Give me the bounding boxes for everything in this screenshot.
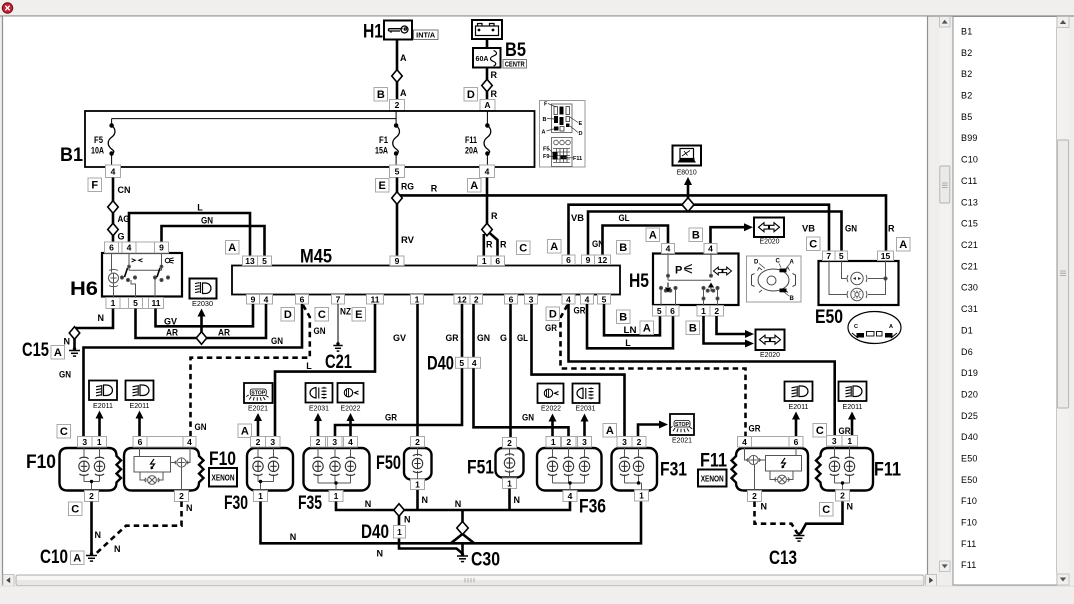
svg-text:D1: D1 bbox=[961, 325, 973, 335]
close button bbox=[2, 3, 12, 13]
wire N to C30 junction bbox=[461, 510, 464, 523]
status bar bbox=[0, 586, 1074, 604]
H6 beam icon park bbox=[165, 258, 174, 263]
turn signal E2020 top bbox=[754, 218, 784, 238]
svg-text:C: C bbox=[822, 504, 830, 516]
connector label A (M45 left) bbox=[226, 241, 240, 255]
pin 6 (F10 xenon) bbox=[133, 437, 147, 448]
svg-text:B: B bbox=[692, 230, 700, 242]
svg-text:4: 4 bbox=[187, 437, 192, 447]
pin 1 (M45 bottom) bbox=[411, 294, 424, 304]
connector label B (H5 bottom) bbox=[617, 310, 631, 324]
pin 9 (M45 top) bbox=[390, 256, 404, 266]
pin 2 (F11 xenon) bbox=[748, 491, 762, 502]
svg-text:5: 5 bbox=[133, 298, 138, 308]
svg-text:9: 9 bbox=[395, 256, 400, 266]
svg-text:9: 9 bbox=[159, 243, 164, 253]
svg-text:GL: GL bbox=[619, 213, 630, 223]
svg-text:D: D bbox=[467, 89, 475, 101]
arrow to E2011 from F10 xenon pin 6 bbox=[136, 411, 144, 437]
ground C30 bbox=[457, 556, 468, 562]
pin 15 (E50) bbox=[878, 251, 894, 261]
svg-text:GN: GN bbox=[59, 370, 71, 380]
connector label B (H5 pins 1-2) bbox=[686, 321, 700, 335]
svg-text:G: G bbox=[118, 232, 125, 242]
svg-text:B2: B2 bbox=[961, 91, 972, 101]
svg-text:3: 3 bbox=[582, 437, 587, 447]
wire N bus from F35 pin 1 to F36 pin 4 bbox=[336, 502, 570, 511]
junction C30 bbox=[457, 522, 469, 535]
pin 4 L (M45 bottom) bbox=[581, 294, 594, 304]
ignition switch H1 box bbox=[384, 21, 412, 40]
bulb 3 (F35) bbox=[345, 457, 355, 475]
pin 6 (M45 top right) bbox=[491, 256, 505, 266]
pin 13 (M45 top) bbox=[243, 256, 258, 266]
connector label C (F10) bbox=[57, 425, 71, 439]
F36 pin row bbox=[546, 437, 592, 448]
svg-text:1: 1 bbox=[258, 491, 263, 501]
pin 7 (M45 bottom) bbox=[332, 294, 345, 304]
pin 3 (F11) bbox=[827, 436, 843, 447]
svg-text:C15: C15 bbox=[22, 340, 49, 361]
svg-text:NZ: NZ bbox=[340, 307, 351, 317]
svg-text:D: D bbox=[754, 260, 759, 266]
svg-text:A: A bbox=[790, 260, 795, 266]
reverse lamp icon E2022 (left) bbox=[338, 383, 364, 403]
ground C10 bbox=[86, 556, 97, 562]
inline connector on wire N bbox=[69, 327, 80, 340]
svg-text:B2: B2 bbox=[961, 69, 972, 79]
svg-text:15: 15 bbox=[881, 251, 891, 261]
svg-text:6: 6 bbox=[670, 306, 675, 316]
pin 4 (H5 top right) bbox=[704, 244, 717, 254]
svg-text:F11: F11 bbox=[700, 451, 727, 472]
wire GN from D40 pin 4 to F36 pin 2 bbox=[474, 368, 569, 436]
svg-text:VB: VB bbox=[802, 224, 816, 234]
svg-text:6: 6 bbox=[509, 294, 514, 304]
wire R long to E50 pin 15 bbox=[397, 195, 886, 250]
arrow to E8010 bbox=[684, 177, 692, 205]
svg-text:4: 4 bbox=[566, 294, 571, 304]
svg-text:D40: D40 bbox=[427, 354, 454, 375]
wire GL from M45 pin 12 to H5 pin 4 bbox=[603, 226, 669, 255]
pin 4 (H6 top) bbox=[122, 242, 136, 253]
fog lamp unit F30 bbox=[247, 448, 293, 491]
svg-text:R: R bbox=[486, 240, 493, 250]
svg-text:E: E bbox=[579, 121, 583, 127]
wire AR from H6 pin 5 to M45 pin 4 bbox=[136, 304, 267, 338]
pin 2 (F31) bbox=[632, 437, 646, 448]
svg-text:D40: D40 bbox=[961, 432, 978, 442]
svg-text:P: P bbox=[675, 265, 682, 277]
fog lamp icon E2031 (right) bbox=[573, 384, 600, 404]
svg-text:C21: C21 bbox=[961, 261, 978, 271]
pin 6 (F11 xenon) bbox=[789, 437, 803, 448]
top bar border bbox=[0, 15, 1074, 17]
svg-text:6: 6 bbox=[109, 243, 114, 253]
svg-text:A: A bbox=[889, 324, 893, 330]
connector label A (H5 pin 4) bbox=[646, 228, 660, 242]
diagram right border bbox=[927, 17, 929, 575]
svg-text:4: 4 bbox=[585, 294, 590, 304]
wire R to M45 pin 6 bbox=[490, 233, 498, 255]
svg-text:4: 4 bbox=[708, 244, 713, 254]
pin 2 (F36) bbox=[562, 437, 577, 448]
connector label A (M45 pin6) bbox=[548, 240, 562, 254]
svg-text:7: 7 bbox=[336, 294, 341, 304]
arrow to E2030 bbox=[198, 309, 206, 333]
svg-text:1: 1 bbox=[111, 298, 116, 308]
svg-text:1: 1 bbox=[415, 294, 420, 304]
svg-text:N: N bbox=[186, 503, 193, 513]
svg-text:XENON: XENON bbox=[212, 474, 235, 483]
pin 11 (M45 bottom) bbox=[367, 294, 384, 304]
wire GN solid from M45 pin 6 to F10 pin 3 bbox=[84, 304, 303, 436]
connector label E (M45 pin7) bbox=[352, 308, 366, 322]
horizontal scrollbar bbox=[3, 575, 937, 587]
pin 4 (F11 xenon) bbox=[738, 437, 752, 448]
wire L from M45 pin 4 to H5 pin 6 bbox=[587, 304, 673, 348]
svg-text:D: D bbox=[284, 309, 292, 321]
svg-text:C: C bbox=[519, 243, 527, 255]
H6 bottom pin row bbox=[106, 298, 164, 309]
diagnostic socket E8010 bbox=[673, 146, 702, 166]
inline connector on wire AG bbox=[108, 201, 119, 214]
wire N from D40 pin 1 to ground C30 bbox=[399, 516, 463, 554]
E50 telltale fog bbox=[847, 288, 867, 300]
svg-text:D25: D25 bbox=[961, 411, 978, 421]
connector label B (M45 pin 12) bbox=[617, 241, 631, 255]
pin 5 (M45 top) bbox=[258, 256, 272, 266]
pin 1 (F10) bbox=[92, 437, 107, 448]
headlamp unit F10 left bbox=[60, 448, 122, 491]
wire GN from M45 pin 2 to D40 pin 4 bbox=[472, 304, 475, 357]
svg-text:F36: F36 bbox=[579, 497, 606, 518]
F11 xenon internals bbox=[745, 447, 802, 491]
svg-text:F5: F5 bbox=[543, 147, 549, 153]
svg-text:E2021: E2021 bbox=[248, 404, 268, 413]
H5 bottom pin row right bbox=[697, 306, 724, 317]
svg-text:F11: F11 bbox=[573, 156, 582, 162]
F51 internal wiring bbox=[509, 448, 511, 478]
H6 top pin row bbox=[105, 242, 169, 253]
label box CENTR bbox=[503, 60, 527, 69]
svg-text:3: 3 bbox=[270, 437, 275, 447]
svg-text:N: N bbox=[365, 499, 372, 509]
svg-text:A: A bbox=[899, 239, 907, 251]
svg-text:B5: B5 bbox=[961, 112, 972, 122]
svg-text:H6: H6 bbox=[70, 279, 98, 300]
svg-text:2: 2 bbox=[637, 437, 642, 447]
pin 2 (F10) bbox=[85, 491, 99, 502]
svg-text:E50: E50 bbox=[961, 454, 978, 464]
pin 3 (F31) bbox=[617, 437, 632, 448]
pin 9 GN (M45 top) bbox=[582, 255, 595, 265]
pin 12 GL (M45 top) bbox=[595, 255, 611, 265]
lamp unit F51 bbox=[496, 448, 524, 478]
diagram canvas bbox=[3, 17, 928, 575]
pin 2 (H5 bottom) bbox=[710, 306, 724, 317]
svg-text:A: A bbox=[470, 180, 478, 192]
fog bulb right (F30) bbox=[268, 457, 278, 475]
svg-text:L: L bbox=[625, 338, 631, 348]
wire GR from D40 pin 5 to F35 pin 3 bbox=[335, 368, 462, 436]
svg-text:C21: C21 bbox=[325, 352, 352, 373]
xenon ballast unit F10 bbox=[124, 448, 204, 491]
pin 2 (F50) bbox=[411, 437, 425, 448]
svg-text:R: R bbox=[491, 89, 498, 99]
wire N dashed from F11 xenon pin 2 to C13 bbox=[755, 502, 798, 534]
pin 4 (F10 xenon) bbox=[183, 437, 196, 448]
wire R from B5 bbox=[486, 39, 489, 100]
svg-text:F1: F1 bbox=[379, 135, 388, 145]
wire G from M45 pin 6 to F51 pin 2 bbox=[509, 304, 512, 438]
svg-text:4: 4 bbox=[348, 437, 353, 447]
svg-text:C: C bbox=[816, 425, 824, 437]
pin 2 (F30) bbox=[251, 437, 266, 448]
svg-text:C: C bbox=[776, 259, 781, 265]
component list items bbox=[961, 27, 978, 571]
connector label D (B1) bbox=[464, 88, 478, 102]
svg-text:GN: GN bbox=[314, 326, 326, 336]
svg-text:C: C bbox=[60, 426, 68, 438]
connector label C (M45 pin6 dashed) bbox=[315, 308, 329, 322]
arrow to E2011 from F10 pin 1 bbox=[96, 411, 104, 437]
arrow to E2011 from F11 xenon pin 6 bbox=[792, 412, 800, 437]
E50 connector drawing bbox=[848, 312, 901, 344]
svg-text:C13: C13 bbox=[769, 548, 797, 569]
low beam bulb (F11) bbox=[829, 457, 839, 475]
connector label C (F10 pin2) bbox=[69, 502, 83, 516]
svg-text:R: R bbox=[888, 224, 895, 234]
pin 4 (D40) bbox=[468, 357, 481, 368]
svg-text:1: 1 bbox=[97, 437, 102, 447]
svg-text:6: 6 bbox=[566, 255, 571, 265]
headlamp icon E2011 (left inner) bbox=[126, 381, 154, 401]
svg-text:5: 5 bbox=[395, 166, 400, 176]
junction AR bbox=[196, 332, 207, 345]
svg-text:GR: GR bbox=[545, 323, 557, 333]
wire GN dashed from M45 pin 6 to xenon pin 4 bbox=[191, 305, 310, 436]
connector label F bbox=[88, 178, 102, 192]
F10 xenon pin row bbox=[133, 437, 196, 448]
window top bar bbox=[0, 0, 1074, 16]
svg-text:2: 2 bbox=[89, 491, 94, 501]
arrow to E2031 from F36 pin 3 bbox=[581, 414, 589, 437]
connector label A bbox=[468, 179, 482, 193]
svg-text:6: 6 bbox=[300, 294, 305, 304]
xenon ballast unit F11 bbox=[732, 448, 809, 491]
svg-text:R: R bbox=[491, 70, 498, 80]
turn signal E2020 bottom bbox=[756, 330, 785, 351]
svg-text:2: 2 bbox=[714, 306, 719, 316]
svg-text:N: N bbox=[114, 544, 121, 554]
svg-text:C15: C15 bbox=[961, 219, 978, 229]
svg-text:B: B bbox=[689, 323, 697, 335]
svg-text:A: A bbox=[54, 347, 62, 359]
headlamp icon E2011 (left outer) bbox=[89, 381, 117, 401]
inline connector on wire A bbox=[392, 70, 403, 83]
svg-text:GN: GN bbox=[271, 336, 283, 346]
H6 internal lamp bbox=[109, 253, 119, 298]
svg-text:F11: F11 bbox=[961, 539, 976, 549]
svg-text:H1: H1 bbox=[363, 22, 383, 43]
wire GL from M45 pin 3 to F31 pin 3 bbox=[532, 304, 625, 436]
pin 2 (F51) bbox=[503, 438, 517, 449]
pin 9 (M45 bottom) bbox=[247, 294, 260, 304]
wire R to M45 pin 1 bbox=[482, 234, 485, 256]
svg-text:N: N bbox=[404, 515, 411, 525]
junction at ground C30 bbox=[461, 553, 464, 556]
svg-text:L: L bbox=[197, 203, 203, 213]
ground C21 bbox=[333, 346, 342, 352]
svg-text:B: B bbox=[619, 312, 627, 324]
H5 turn arrows icon bbox=[714, 267, 732, 275]
svg-text:F35: F35 bbox=[298, 493, 322, 514]
svg-text:E50: E50 bbox=[961, 475, 978, 485]
headlamp icon E2011 (right outer) bbox=[839, 382, 867, 402]
pin 5 (H5 bottom) bbox=[653, 306, 667, 317]
pin 1 (H5 bottom) bbox=[697, 306, 710, 317]
svg-text:C: C bbox=[809, 239, 817, 251]
body computer M45 bbox=[232, 266, 620, 295]
bulb 1 (F36) bbox=[547, 457, 557, 475]
connector label C (M45) bbox=[517, 241, 531, 255]
pin 4 (F35) bbox=[344, 437, 358, 448]
svg-text:GN: GN bbox=[477, 333, 490, 343]
svg-text:N: N bbox=[514, 495, 521, 505]
svg-text:A: A bbox=[649, 230, 657, 242]
wire to E2020 from H5 pin 1 bbox=[704, 316, 755, 348]
svg-text:B2: B2 bbox=[961, 48, 972, 58]
svg-text:A: A bbox=[400, 53, 407, 63]
junction in F35 bbox=[334, 481, 337, 484]
F31 internal wiring bbox=[625, 447, 642, 490]
wire N from F30 pin 1 to F31 pin 1 bbox=[261, 502, 642, 544]
wire GR from M45 pin 12 to D40 pin 5 bbox=[461, 304, 464, 357]
F35 pin row bbox=[311, 437, 358, 448]
svg-text:E50: E50 bbox=[815, 307, 843, 328]
svg-text:5: 5 bbox=[602, 294, 607, 304]
svg-text:3: 3 bbox=[832, 436, 837, 446]
stop light icon E2021 (right) bbox=[670, 414, 694, 435]
connector label A (F31) bbox=[603, 424, 617, 438]
svg-text:B1: B1 bbox=[961, 27, 972, 37]
wire GV from M45 pin 1 to F50 pin 2 bbox=[416, 304, 419, 436]
bulb 1 (F31) bbox=[619, 457, 629, 475]
headlamp connector drawing bbox=[747, 256, 802, 302]
pin 1 (F11) bbox=[842, 436, 858, 447]
fog lamp unit F31 bbox=[612, 448, 658, 491]
svg-text:VB: VB bbox=[571, 213, 585, 223]
fog lamp icon E2031 (left) bbox=[306, 383, 333, 403]
svg-text:C: C bbox=[318, 309, 326, 321]
svg-text:4: 4 bbox=[568, 491, 573, 501]
connector legend box bbox=[540, 101, 586, 168]
connector label E bbox=[376, 179, 390, 193]
pin 2 (F11) bbox=[836, 490, 850, 501]
pin 12 (M45 bottom) bbox=[454, 294, 470, 304]
junction RG/R bbox=[392, 192, 403, 205]
svg-text:B5: B5 bbox=[505, 40, 526, 61]
arrow to E2022 from F35 pin 4 bbox=[347, 413, 355, 436]
svg-text:C10: C10 bbox=[40, 547, 68, 568]
svg-text:4: 4 bbox=[127, 243, 132, 253]
pin 1 (H6 bottom) bbox=[106, 298, 120, 309]
svg-text:1: 1 bbox=[334, 491, 339, 501]
svg-text:N: N bbox=[422, 495, 429, 505]
connector label C (F11) bbox=[813, 424, 827, 438]
low beam bulb (F10) bbox=[79, 457, 89, 475]
arrow to E2021 from F30 pin 2 bbox=[254, 413, 262, 436]
svg-text:F50: F50 bbox=[376, 453, 401, 474]
svg-text:A: A bbox=[606, 425, 614, 437]
svg-text:60A: 60A bbox=[476, 56, 489, 63]
svg-text:B: B bbox=[543, 117, 547, 123]
rear lamp unit F36 bbox=[537, 448, 602, 491]
svg-text:GN: GN bbox=[522, 413, 534, 423]
svg-text:F: F bbox=[91, 180, 98, 192]
svg-text:GR: GR bbox=[749, 424, 761, 434]
wire L from M45 pin 11 to F30 pin 3 bbox=[275, 304, 375, 436]
junction in F31 bbox=[637, 481, 640, 484]
junction in F36 bbox=[568, 481, 571, 484]
wire N dashed from F10 xenon pin 2 to C10 bbox=[96, 502, 182, 555]
svg-text:E2030: E2030 bbox=[192, 299, 213, 308]
svg-text:F10: F10 bbox=[209, 449, 236, 470]
svg-text:2: 2 bbox=[316, 437, 321, 447]
junction at ground C15 bbox=[73, 347, 76, 350]
svg-text:STOP: STOP bbox=[675, 422, 690, 428]
pin 1 (F31) bbox=[635, 490, 649, 501]
fusebox B1 bbox=[85, 111, 535, 167]
fuse 60A box bbox=[473, 48, 501, 68]
stop light icon E2021 (left) bbox=[244, 383, 273, 403]
svg-text:GR: GR bbox=[446, 333, 459, 343]
connector label A (E50) bbox=[897, 238, 911, 252]
svg-text:AR: AR bbox=[218, 328, 230, 338]
svg-text:D6: D6 bbox=[961, 347, 973, 357]
pin 2 (F35) bbox=[311, 437, 326, 448]
wire GN from M45 pin 9 to E50 pin 5 bbox=[588, 212, 842, 255]
bulb 2 (F31) bbox=[633, 457, 643, 475]
H5 flash icon bbox=[675, 265, 692, 277]
wire RG/RV from B1 to M45 bbox=[396, 178, 399, 256]
svg-text:GR: GR bbox=[574, 306, 586, 316]
svg-text:D19: D19 bbox=[961, 368, 978, 378]
status bar top edge bbox=[0, 585, 1074, 587]
F10 xenon internals bbox=[134, 447, 190, 491]
pin 1 (F30) bbox=[254, 491, 268, 502]
svg-text:6: 6 bbox=[495, 256, 500, 266]
wire A from H1 bbox=[396, 40, 399, 100]
svg-text:F11: F11 bbox=[961, 560, 976, 570]
svg-text:2: 2 bbox=[474, 294, 479, 304]
high beam bulb (F10) bbox=[94, 457, 104, 475]
svg-text:H5: H5 bbox=[629, 271, 649, 292]
bulb (F50) bbox=[412, 454, 422, 472]
pin 6 (H6 top) bbox=[105, 242, 119, 253]
svg-text:N: N bbox=[847, 502, 854, 512]
pin 2 (M45 bottom) bbox=[470, 294, 483, 304]
instrument cluster E50 bbox=[819, 261, 899, 305]
wire LN from M45 pin 5 to H5 pin 5 bbox=[604, 304, 660, 335]
connector label A (F30) bbox=[238, 424, 252, 438]
wire VB from M45 pin 6 to E50 pin 7 bbox=[569, 205, 830, 255]
svg-text:F31: F31 bbox=[660, 460, 687, 481]
bulb (F51) bbox=[504, 454, 514, 472]
svg-text:R: R bbox=[431, 184, 438, 194]
